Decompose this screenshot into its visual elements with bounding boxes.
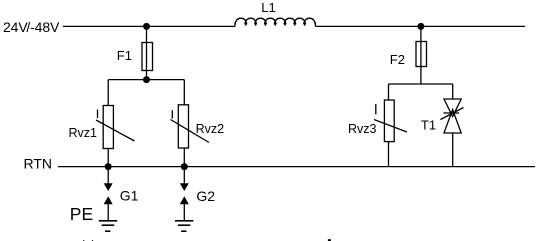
svg-text:L1: L1 — [261, 0, 275, 15]
junction dot RTN / G2 — [181, 163, 188, 170]
label Rvz1 — [69, 126, 98, 140]
gas discharge tube G2 lower arrow — [180, 196, 189, 204]
svg-text:RTN: RTN — [24, 156, 53, 172]
thyristor T1 upper triangle — [444, 99, 461, 117]
svg-text:T1: T1 — [421, 118, 436, 133]
label F2 — [390, 52, 405, 67]
caption (a) cropped at bottom — [81, 238, 96, 241]
varistor Rvz3 tick — [375, 104, 377, 114]
wire split bar left side — [108, 79, 184, 81]
gas discharge tube G1 upper arrow — [104, 183, 113, 191]
svg-text:(a): (a) — [81, 238, 96, 241]
varistor Rvz3 diagonal — [374, 120, 407, 133]
wire Rvz1 bottom lead — [107, 149, 109, 167]
wire F2 through line — [420, 42, 422, 67]
wire G1 ground lead — [107, 204, 109, 221]
wire inductor left step — [234, 22, 236, 26]
net label RTN — [24, 156, 53, 172]
wire RTN rail — [58, 166, 535, 168]
svg-text:G1: G1 — [120, 188, 139, 204]
wire T1 bottom lead — [452, 133, 454, 166]
gas discharge tube G2 upper arrow — [180, 183, 189, 191]
wire top rail left segment — [63, 25, 235, 27]
label F1 — [117, 48, 132, 63]
fuse F2 — [416, 42, 427, 67]
svg-text:F1: F1 — [117, 48, 132, 63]
caption mark cropped bottom right — [328, 239, 331, 241]
varistor Rvz2 body — [178, 105, 188, 148]
wire Rvz2 top lead — [183, 80, 185, 105]
wire inductor right step — [314, 22, 316, 26]
varistor Rvz2 diagonal — [171, 120, 210, 143]
wire F2 branch lower — [420, 67, 422, 85]
label Rvz2 — [196, 122, 225, 136]
net label 24V/-48V — [3, 19, 60, 35]
svg-text:24V/-48V: 24V/-48V — [3, 19, 60, 35]
thyristor T1 gate diagonal — [441, 108, 464, 120]
label Rvz3 — [348, 122, 377, 136]
junction dot top rail / F2 — [417, 23, 424, 30]
wire F1 branch — [146, 26, 148, 79]
wire G1 upper lead — [107, 166, 109, 184]
inductor L1 — [235, 18, 315, 26]
wire Rvz3 top lead — [388, 84, 390, 100]
varistor Rvz1 diagonal — [96, 120, 135, 141]
label G2 — [196, 188, 215, 204]
label L1 — [261, 0, 275, 15]
label T1 — [421, 118, 436, 133]
wire G2 ground lead — [183, 204, 185, 221]
svg-text:Rvz1: Rvz1 — [69, 126, 98, 140]
junction dot below F1 — [143, 76, 150, 83]
gas discharge tube G1 lower arrow — [104, 196, 113, 204]
thyristor T1 middle bar — [444, 112, 460, 114]
svg-text:Rvz2: Rvz2 — [196, 122, 225, 136]
wire Rvz3 bottom lead — [388, 142, 390, 167]
wire Rvz2 bottom lead — [183, 148, 185, 166]
thyristor T1 lower triangle — [444, 110, 461, 134]
wire split bar right side — [389, 83, 453, 85]
ground PE at G2 — [175, 221, 193, 231]
varistor Rvz2 tick — [171, 110, 173, 118]
wire G2 upper lead — [183, 166, 185, 184]
wire F2 branch upper — [420, 26, 422, 41]
varistor Rvz1 tick — [97, 110, 99, 119]
wire Rvz1 top lead — [107, 80, 109, 106]
label G1 — [120, 188, 139, 204]
label PE — [70, 204, 93, 224]
svg-text:G2: G2 — [196, 188, 215, 204]
varistor Rvz3 body — [384, 100, 394, 142]
wire top rail right segment — [315, 25, 525, 27]
wire T1 top lead — [452, 84, 454, 99]
svg-text:PE: PE — [70, 204, 93, 224]
svg-text:F2: F2 — [390, 52, 405, 67]
varistor Rvz1 body — [103, 106, 113, 149]
ground PE at G1 — [99, 221, 117, 231]
fuse F1 — [142, 43, 153, 71]
svg-text:Rvz3: Rvz3 — [348, 122, 377, 136]
junction dot RTN / G1 — [105, 163, 112, 170]
junction dot top rail / F1 — [143, 23, 150, 30]
